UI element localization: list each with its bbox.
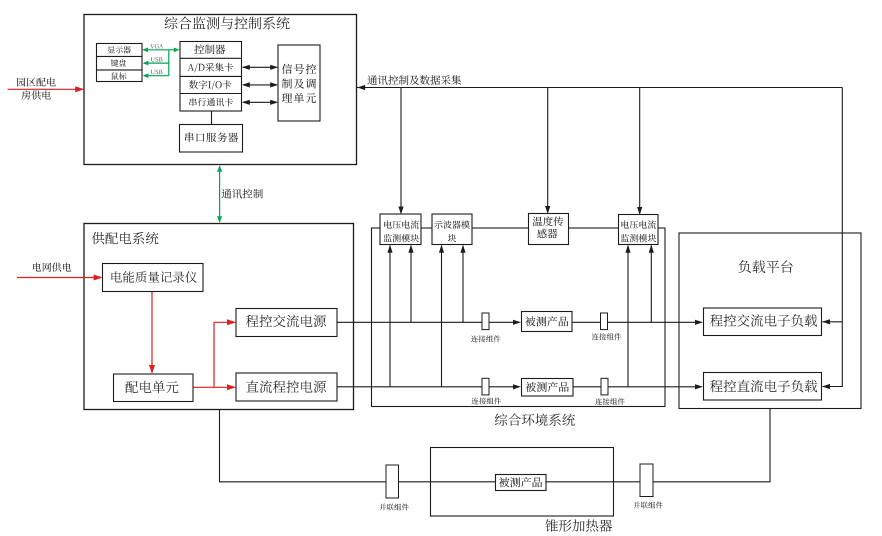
- wire AC row source to DUT: [337, 321, 515, 323]
- label 园区配电: [17, 77, 56, 86]
- box 鼠标: [97, 70, 143, 82]
- arrowhead into DC source: [227, 384, 236, 390]
- arrowhead left card link 3: [242, 100, 250, 105]
- text 感器 m3: [537, 229, 557, 239]
- text 温度传 m3: [533, 216, 564, 226]
- arrowhead into top box (comm bus): [357, 85, 365, 90]
- arrowhead AC load right: [822, 319, 830, 324]
- wire serial card to serial server: [211, 111, 213, 125]
- wire recorder to dist unit: [151, 292, 153, 373]
- wire m4 to AC row: [650, 246, 652, 323]
- arrowhead comm down: [217, 216, 222, 223]
- wire grid supply: [17, 277, 101, 279]
- container box 综合环境系统: [372, 228, 666, 407]
- separator IO/serial: [180, 93, 242, 95]
- box 被测产品 DC: [522, 379, 574, 397]
- label 连接组件 AC left: [471, 335, 501, 342]
- wire green vertical: [168, 50, 170, 76]
- label 通讯控制及数据采集: [367, 75, 461, 85]
- arrowhead comm up: [217, 165, 222, 172]
- wire bottom heater circuit: [220, 409, 771, 482]
- wire AC row DUT to load: [572, 321, 697, 323]
- box 程控交流电源: [236, 309, 337, 337]
- wire card-signal link 1: [243, 66, 277, 68]
- wire DC row source to DUT: [337, 386, 515, 388]
- text 电能质量记录仪: [112, 271, 197, 283]
- box bottom connector right: [640, 464, 653, 497]
- arrowhead m2 AC up: [460, 245, 465, 253]
- text 直流程控电源: [246, 380, 326, 393]
- container box 供配电系统: [84, 224, 354, 410]
- container box 负载平台: [679, 233, 861, 409]
- text 鼠标: [112, 72, 127, 79]
- label USB 1: [151, 57, 163, 62]
- wire top comm bus: [357, 87, 843, 89]
- box DC connector left: [482, 378, 489, 395]
- box 键盘: [97, 57, 143, 71]
- title 负载平台: [738, 260, 792, 273]
- text 数字I/O卡: [189, 80, 231, 90]
- arrowhead VGA left: [142, 48, 148, 53]
- arrowhead drop module1: [398, 207, 403, 215]
- wire m2 to DC row: [441, 246, 443, 387]
- wire park power supply: [8, 88, 83, 90]
- text 键盘: [111, 59, 126, 66]
- label 连接组件 AC right: [592, 333, 622, 340]
- arrowhead drop module4: [637, 207, 642, 215]
- text 电压电流 m1: [384, 220, 419, 228]
- arrowhead m1 AC up: [408, 245, 413, 253]
- wire comm bus down right side to DC load: [823, 88, 843, 387]
- arrowhead into dist unit: [149, 365, 155, 374]
- box 显示器: [97, 44, 143, 57]
- title 锥形加热器: [545, 519, 612, 532]
- arrowhead DC load right: [822, 384, 830, 389]
- arrowhead grid supply: [94, 275, 103, 281]
- label 通讯控制: [222, 189, 263, 199]
- wire branch to AC load right: [823, 321, 843, 323]
- box AC connector right: [601, 313, 608, 330]
- arrowhead m2 DC up: [439, 245, 444, 253]
- label 并联组件 right: [633, 502, 663, 509]
- wire card-signal link 2: [243, 84, 277, 86]
- box DC connector right: [601, 378, 608, 395]
- box 被测产品 bottom: [496, 475, 547, 491]
- arrowhead AC into DUT: [513, 320, 521, 325]
- label 电网供电: [33, 263, 71, 272]
- box 电能质量记录仪: [103, 264, 204, 292]
- text 监测模块 m4: [621, 234, 656, 242]
- wire USB link 2: [144, 75, 169, 77]
- wire drop to module1: [400, 88, 402, 214]
- text 串口服务器: [185, 132, 238, 142]
- text 显示器: [108, 46, 131, 53]
- box 示波器模块: [432, 214, 472, 245]
- arrowhead left card link 1: [242, 65, 250, 70]
- box bottom connector left: [386, 465, 399, 498]
- arrowhead DC into load: [695, 384, 703, 389]
- arrowhead left card link 2: [242, 82, 250, 87]
- arrowhead into AC source: [227, 319, 236, 325]
- box 直流程控电源: [236, 373, 337, 401]
- wire VGA link: [144, 49, 179, 51]
- arrowhead m4 DC up: [625, 245, 630, 253]
- box 串口服务器: [180, 125, 243, 153]
- label 并联组件 left: [379, 504, 409, 511]
- box 被测产品 AC: [522, 312, 573, 332]
- text 示波器模 m2: [434, 221, 470, 229]
- wire USB link 1: [144, 62, 169, 64]
- separator AD/IO: [180, 75, 242, 77]
- text 被测产品 DC: [526, 382, 569, 392]
- wire m4 to DC row: [627, 246, 629, 387]
- box 信号控制及调理单元: [278, 45, 320, 121]
- title 供配电系统: [92, 232, 159, 245]
- arrowhead m1 DC up: [387, 245, 392, 253]
- text 信号控: [282, 64, 316, 74]
- container box 综合监测与控制系统: [84, 15, 357, 165]
- box 程控直流电子负载: [704, 373, 822, 401]
- arrowhead drop module3: [545, 206, 550, 214]
- container box 锥形加热器: [431, 448, 614, 517]
- box 温度传感器: [529, 214, 569, 245]
- arrowhead VGA right: [174, 48, 180, 53]
- text A/D采集卡: [188, 63, 234, 73]
- label 连接组件 DC left: [472, 397, 502, 404]
- arrowhead USB2: [143, 73, 149, 78]
- text 程控直流电子负载: [710, 380, 817, 393]
- box 配电单元: [114, 374, 194, 402]
- title 综合环境系统: [495, 414, 575, 427]
- arrowhead right card link 2: [270, 82, 278, 87]
- wire m1 to DC row: [389, 246, 391, 387]
- text 块 m2: [448, 234, 457, 242]
- text 配电单元: [126, 381, 179, 393]
- arrowhead right card link 1: [270, 65, 278, 70]
- arrowhead USB1: [143, 61, 149, 66]
- wire DC row DUT to load: [573, 386, 697, 388]
- box controller stack: [180, 42, 242, 112]
- arrowhead m4 AC up: [649, 245, 654, 253]
- text 监测模块 m1: [384, 234, 419, 242]
- separator 控制器/AD: [180, 57, 242, 59]
- wire card-signal link 3: [243, 101, 277, 103]
- box AC connector left: [482, 313, 489, 330]
- arrowhead DC into DUT: [513, 384, 521, 389]
- box 电压电流监测模块 left: [380, 214, 421, 245]
- box 程控交流电子负载: [704, 308, 822, 336]
- text 被测产品 bottom: [499, 477, 542, 487]
- text 电压电流 m4: [622, 220, 657, 228]
- text 被测产品 AC: [525, 316, 568, 326]
- wire dist unit branch to AC source: [214, 322, 235, 387]
- wire 通讯控制 link: [219, 166, 221, 222]
- wire m1 to AC row: [410, 246, 412, 323]
- box 电压电流监测模块 right: [619, 215, 659, 245]
- title 综合监测与控制系统: [165, 17, 290, 30]
- text 串行通讯卡: [189, 98, 233, 106]
- arrowhead AC into load: [695, 320, 703, 325]
- label USB 2: [151, 70, 163, 75]
- arrowhead park power: [75, 86, 84, 92]
- label VGA: [150, 44, 163, 49]
- text 程控交流电源: [246, 315, 326, 328]
- wire drop to module4: [639, 88, 641, 214]
- wire drop to module3: [547, 88, 549, 213]
- wire module connection line: [372, 227, 666, 229]
- label 连接组件 DC right: [595, 398, 625, 405]
- arrowhead right card link 3: [270, 100, 278, 105]
- text 控制器: [194, 44, 225, 54]
- wire m2 to AC row: [462, 246, 464, 323]
- text 程控交流电子负载: [710, 314, 817, 327]
- label 房供电: [21, 90, 51, 99]
- text 理单元: [282, 93, 316, 103]
- text 制及调: [282, 79, 316, 89]
- wire dist unit to DC source: [193, 386, 235, 388]
